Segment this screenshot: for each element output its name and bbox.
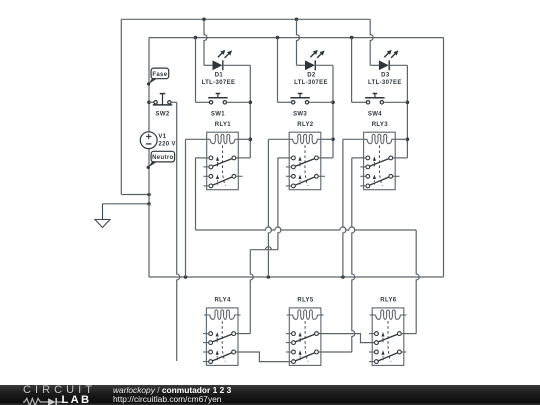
svg-text:Fase: Fase bbox=[152, 72, 167, 78]
svg-text:SW1: SW1 bbox=[211, 112, 225, 118]
svg-text:RLY4: RLY4 bbox=[215, 298, 231, 304]
svg-text:D2: D2 bbox=[307, 73, 316, 79]
svg-text:LTL-307EE: LTL-307EE bbox=[202, 80, 236, 86]
svg-text:D3: D3 bbox=[381, 73, 390, 79]
svg-text:LTL-307EE: LTL-307EE bbox=[368, 80, 402, 86]
svg-text:SW2: SW2 bbox=[155, 112, 169, 118]
svg-text:SW3: SW3 bbox=[293, 112, 307, 118]
svg-text:RLY6: RLY6 bbox=[380, 298, 396, 304]
svg-text:SW4: SW4 bbox=[368, 112, 382, 118]
svg-text:RLY5: RLY5 bbox=[297, 298, 313, 304]
svg-text:Neutro: Neutro bbox=[152, 155, 173, 161]
svg-text:RLY2: RLY2 bbox=[297, 122, 313, 128]
svg-text:RLY1: RLY1 bbox=[215, 122, 231, 128]
svg-text:220 V: 220 V bbox=[158, 141, 175, 147]
svg-text:D1: D1 bbox=[215, 73, 224, 79]
svg-text:LTL-307EE: LTL-307EE bbox=[294, 80, 328, 86]
svg-text:V1: V1 bbox=[158, 134, 166, 140]
svg-text:RLY3: RLY3 bbox=[372, 122, 388, 128]
